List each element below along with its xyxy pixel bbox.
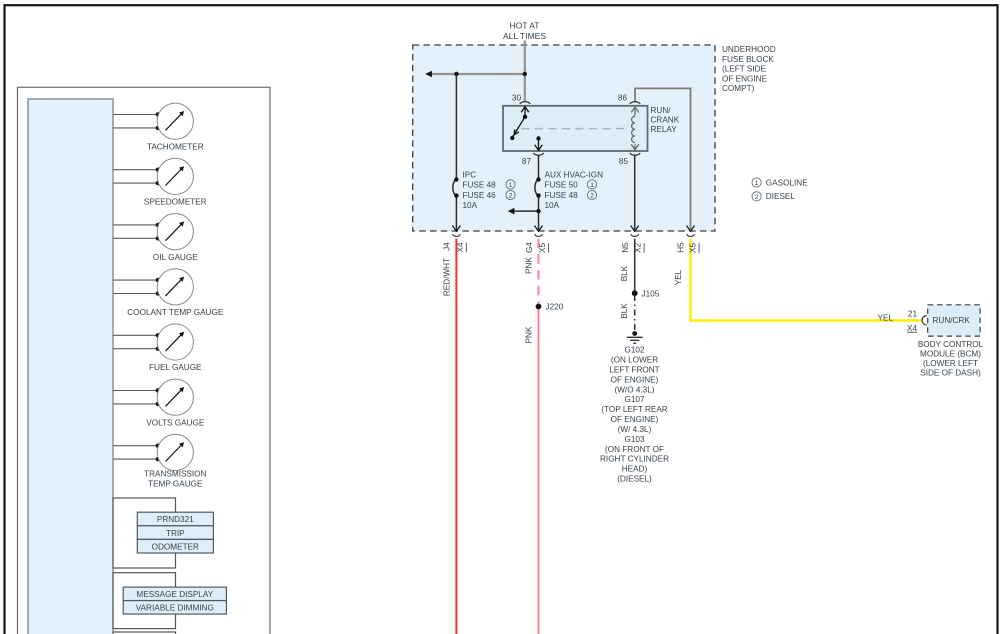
svg-text:RUN/: RUN/: [651, 106, 672, 115]
svg-text:J220: J220: [546, 303, 564, 312]
svg-text:VARIABLE DIMMING: VARIABLE DIMMING: [136, 604, 214, 613]
svg-text:(W/ 4.3L): (W/ 4.3L): [618, 425, 652, 434]
svg-text:OIL GAUGE: OIL GAUGE: [153, 253, 198, 262]
svg-text:1: 1: [590, 182, 594, 189]
svg-text:TRANSMISSION: TRANSMISSION: [144, 470, 206, 479]
svg-text:BODY CONTROL: BODY CONTROL: [918, 340, 984, 349]
svg-text:G103: G103: [624, 435, 644, 444]
svg-text:(TOP LEFT REAR: (TOP LEFT REAR: [601, 405, 668, 414]
svg-text:SIDE OF DASH): SIDE OF DASH): [920, 369, 981, 378]
svg-text:PRND321: PRND321: [157, 515, 194, 524]
svg-text:ALL TIMES: ALL TIMES: [503, 31, 546, 41]
svg-text:BLK: BLK: [620, 303, 629, 319]
svg-text:COOLANT TEMP GAUGE: COOLANT TEMP GAUGE: [127, 308, 224, 317]
svg-text:FUSE 48: FUSE 48: [545, 191, 579, 200]
svg-text:10A: 10A: [545, 201, 560, 210]
svg-text:X4: X4: [907, 324, 917, 333]
svg-text:(ON LOWER: (ON LOWER: [611, 356, 658, 365]
svg-text:2: 2: [755, 194, 759, 201]
svg-text:(LEFT SIDE: (LEFT SIDE: [722, 65, 767, 74]
svg-text:(DIESEL): (DIESEL): [617, 475, 652, 484]
svg-text:1: 1: [755, 180, 759, 187]
svg-text:87: 87: [522, 157, 532, 166]
svg-text:85: 85: [619, 157, 629, 166]
svg-text:1: 1: [509, 182, 513, 189]
svg-text:MODULE (BCM): MODULE (BCM): [920, 350, 981, 359]
svg-text:G107: G107: [624, 395, 644, 404]
svg-text:RUN/CRK: RUN/CRK: [933, 316, 971, 325]
svg-text:J4: J4: [443, 242, 452, 251]
svg-text:TRIP: TRIP: [166, 529, 185, 538]
svg-text:2: 2: [590, 193, 594, 200]
svg-text:G4: G4: [525, 242, 534, 253]
svg-text:YEL: YEL: [674, 269, 683, 285]
svg-text:PNK: PNK: [525, 326, 534, 343]
svg-text:21: 21: [908, 309, 918, 318]
svg-text:X5: X5: [689, 243, 698, 253]
svg-text:(ON FRONT OF: (ON FRONT OF: [605, 445, 664, 454]
svg-text:HOT AT: HOT AT: [510, 21, 540, 31]
svg-text:TEMP GAUGE: TEMP GAUGE: [148, 479, 203, 488]
svg-text:FUSE 46: FUSE 46: [463, 191, 497, 200]
svg-text:FUSE 50: FUSE 50: [545, 181, 579, 190]
svg-text:AUX HVAC-IGN: AUX HVAC-IGN: [545, 170, 604, 179]
svg-text:RELAY: RELAY: [651, 125, 678, 134]
svg-text:YEL: YEL: [878, 313, 894, 322]
svg-text:FUSE 48: FUSE 48: [463, 181, 497, 190]
svg-text:30: 30: [512, 94, 522, 103]
svg-text:H5: H5: [677, 242, 686, 253]
svg-text:TACHOMETER: TACHOMETER: [147, 142, 204, 151]
svg-text:OF ENGINE): OF ENGINE): [611, 415, 659, 424]
svg-text:X5: X5: [538, 243, 547, 253]
svg-text:FUEL GAUGE: FUEL GAUGE: [149, 363, 202, 372]
svg-text:86: 86: [618, 94, 628, 103]
svg-text:X2: X2: [634, 243, 643, 253]
svg-text:(W/O 4.3L): (W/O 4.3L): [614, 385, 654, 394]
svg-text:MESSAGE DISPLAY: MESSAGE DISPLAY: [136, 590, 213, 599]
svg-text:N5: N5: [621, 242, 630, 253]
svg-text:IPC: IPC: [463, 170, 477, 179]
svg-text:(LOWER LEFT: (LOWER LEFT: [923, 359, 978, 368]
svg-text:CRANK: CRANK: [651, 116, 680, 125]
svg-text:FUSE BLOCK: FUSE BLOCK: [722, 55, 774, 64]
svg-text:SPEEDOMETER: SPEEDOMETER: [144, 198, 207, 207]
svg-text:J105: J105: [642, 289, 660, 298]
svg-text:RED/WHT: RED/WHT: [442, 258, 451, 296]
svg-text:COMPT): COMPT): [722, 84, 755, 93]
svg-text:G102: G102: [624, 346, 644, 355]
svg-text:X4: X4: [456, 242, 465, 252]
svg-text:OF ENGINE): OF ENGINE): [611, 375, 659, 384]
svg-text:BLK: BLK: [620, 265, 629, 281]
svg-text:PNK: PNK: [525, 257, 534, 274]
svg-text:GASOLINE: GASOLINE: [766, 178, 808, 187]
svg-text:LEFT FRONT: LEFT FRONT: [609, 365, 659, 374]
svg-text:HEAD): HEAD): [622, 465, 648, 474]
svg-text:VOLTS GAUGE: VOLTS GAUGE: [146, 418, 205, 427]
svg-text:UNDERHOOD: UNDERHOOD: [722, 45, 776, 54]
svg-text:10A: 10A: [463, 201, 478, 210]
svg-text:DIESEL: DIESEL: [766, 192, 796, 201]
svg-text:2: 2: [509, 193, 513, 200]
svg-text:ODOMETER: ODOMETER: [152, 542, 199, 551]
svg-text:OF ENGINE: OF ENGINE: [722, 74, 768, 83]
svg-text:RIGHT CYLINDER: RIGHT CYLINDER: [600, 455, 669, 464]
